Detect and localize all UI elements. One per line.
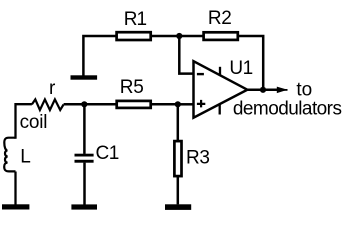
svg-text:R5: R5 xyxy=(120,77,144,98)
label R1 xyxy=(124,9,147,30)
power pin tick bottom xyxy=(219,104,221,115)
wire R2 to output node (feedback) xyxy=(239,36,263,90)
wire node C down to C1 xyxy=(83,104,86,154)
label R5 xyxy=(120,77,144,98)
wire C1 to ground xyxy=(83,163,86,205)
node A junction (R1/R2/inverting input) xyxy=(176,33,182,39)
svg-text:R1: R1 xyxy=(124,9,147,30)
label R3 xyxy=(186,147,210,168)
wire R1 to node A xyxy=(152,35,179,38)
svg-text:C1: C1 xyxy=(96,143,119,164)
svg-text:coil: coil xyxy=(20,112,48,133)
svg-text:R3: R3 xyxy=(186,147,210,168)
resistor R5 xyxy=(117,101,151,108)
label C1 xyxy=(96,143,119,164)
label demodulators xyxy=(233,99,342,120)
label L xyxy=(20,147,31,168)
wire R1 left lead to ground stub xyxy=(83,36,115,76)
label U1 xyxy=(229,58,252,79)
power pin tick top xyxy=(219,67,221,76)
wire zigzag left to coil top xyxy=(16,104,32,139)
node D junction (R5/R3/non-inverting input) xyxy=(175,101,181,107)
inductor L coil xyxy=(4,138,15,172)
wire zigzag right to node C xyxy=(64,103,85,106)
ground (below L) xyxy=(2,204,29,209)
ground (below R3) xyxy=(165,204,191,210)
wire node A to inverting input xyxy=(179,36,193,74)
resistor r zigzag (coil series resistance) xyxy=(32,99,64,110)
svg-text:R2: R2 xyxy=(208,8,232,29)
plus symbol (non-inverting input) xyxy=(197,100,205,108)
wire node D to non-inverting input xyxy=(178,103,194,106)
wire R5 to node D xyxy=(152,103,178,106)
wire coil bottom to ground xyxy=(14,172,16,205)
wire node C to R5 xyxy=(84,103,116,106)
svg-text:L: L xyxy=(20,147,31,168)
wire node A to R2 xyxy=(179,35,203,38)
resistor R3 xyxy=(174,141,181,176)
minus symbol (inverting input) xyxy=(197,73,204,75)
op-amp U1 triangle xyxy=(194,61,248,117)
wire op-amp output xyxy=(246,89,278,92)
capacitor C1 xyxy=(75,154,94,163)
label r xyxy=(49,78,56,99)
wire node D down to R3 xyxy=(177,104,180,140)
svg-text:to: to xyxy=(296,80,312,101)
svg-text:r: r xyxy=(49,78,56,99)
ground (below C1) xyxy=(71,204,97,209)
label to xyxy=(296,80,312,101)
node C junction (r/C1/R5) xyxy=(81,101,87,107)
ground (top, left of R1) xyxy=(71,75,98,79)
svg-text:U1: U1 xyxy=(229,58,252,79)
label coil xyxy=(20,112,48,133)
arrowhead to demodulators xyxy=(277,87,288,94)
resistor R1 xyxy=(117,32,151,40)
node B junction (output/feedback) xyxy=(260,87,266,93)
label R2 xyxy=(208,8,232,29)
resistor R2 xyxy=(204,32,238,40)
svg-text:demodulators: demodulators xyxy=(233,99,342,120)
wire R3 to ground xyxy=(177,177,180,205)
